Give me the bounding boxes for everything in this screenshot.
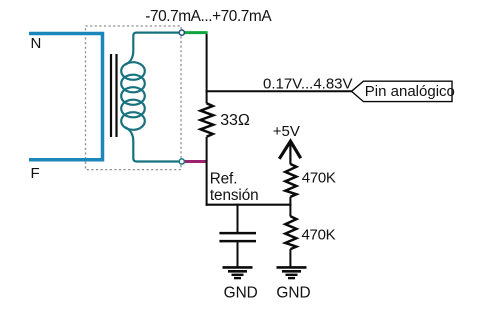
wire main vertical (top node to R1): [206, 32, 208, 104]
svg-text:F: F: [31, 165, 40, 182]
capacitor C1: [237, 204, 239, 232]
svg-text:N: N: [31, 35, 42, 52]
wire secondary bottom (magenta): [184, 160, 208, 163]
svg-text:GND: GND: [224, 284, 258, 301]
dashed enclosure (transformer boundary): [86, 26, 182, 170]
node secondary- (bottom terminal): [179, 159, 184, 164]
resistor R1 33Ω: [201, 103, 214, 136]
transformer T1 core: [111, 54, 117, 137]
flag Pin analógico: [352, 81, 453, 101]
svg-text:Pin analógico: Pin analógico: [365, 83, 455, 100]
svg-text:470K: 470K: [302, 170, 336, 187]
svg-text:GND: GND: [276, 284, 310, 301]
resistor R2 470K (upper): [285, 164, 296, 197]
wire primary N-F (blue): [29, 34, 103, 160]
supply +5V arrow: [279, 141, 300, 159]
svg-text:470K: 470K: [302, 227, 336, 244]
svg-text:33Ω: 33Ω: [220, 112, 250, 129]
svg-text:0.17V...4.83V: 0.17V...4.83V: [263, 75, 353, 92]
wire analog output (horizontal): [206, 90, 352, 92]
transformer T1 secondary winding: [121, 33, 178, 162]
svg-text:-70.7mA...+70.7mA: -70.7mA...+70.7mA: [145, 8, 272, 25]
node secondary+ (top terminal): [179, 30, 184, 35]
svg-text:tensión: tensión: [210, 187, 259, 204]
wire secondary top (green): [184, 31, 208, 34]
wire R1 to reference node: [206, 137, 208, 206]
ground GND (R3): [277, 267, 307, 278]
ground GND (C1): [223, 267, 253, 278]
wire reference node horizontal: [206, 204, 292, 206]
svg-text:+5V: +5V: [273, 123, 300, 140]
resistor R3 470K (lower): [289, 204, 291, 217]
svg-text:Ref.: Ref.: [210, 170, 238, 187]
